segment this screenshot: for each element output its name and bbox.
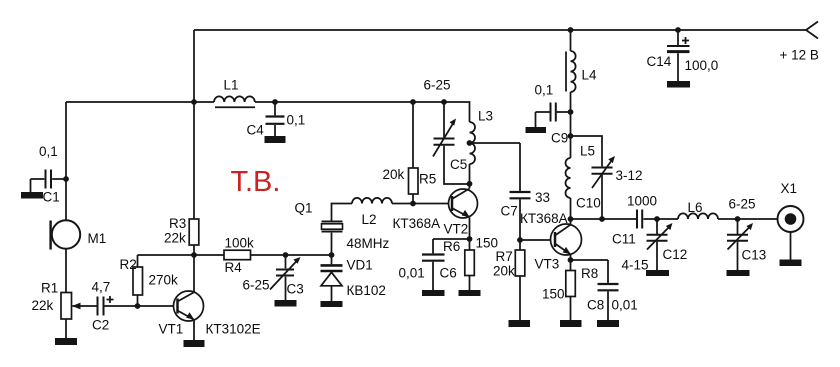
resistor R4 (224, 250, 332, 260)
svg-text:100,0: 100,0 (685, 58, 719, 73)
svg-text:VT3: VT3 (535, 257, 560, 272)
svg-text:КВ102: КВ102 (347, 283, 386, 298)
svg-text:C1: C1 (43, 190, 60, 205)
ground C4 (265, 136, 286, 143)
capacitor C11 (637, 210, 678, 229)
varicap VD1 KB102 (321, 255, 343, 301)
node L4 top (568, 27, 574, 33)
inductor L2 (352, 198, 392, 204)
svg-text:R1: R1 (41, 281, 58, 296)
svg-text:4-15: 4-15 (622, 258, 649, 273)
ground VD1 (321, 301, 343, 307)
ground C13 (727, 270, 750, 276)
svg-text:22k: 22k (164, 231, 186, 246)
node Q1/VD1 (329, 252, 335, 258)
transistor VT2 (449, 184, 478, 240)
node L6/C13 (735, 216, 741, 222)
node C14 top (675, 27, 681, 33)
svg-text:C2: C2 (92, 318, 109, 333)
capacitor C13 variable (727, 219, 753, 270)
ground X1 (780, 260, 802, 267)
svg-text:VT1: VT1 (159, 322, 184, 337)
resistor R1 potentiometer (61, 293, 97, 320)
node VT1 base (135, 303, 141, 309)
node C10 branch (568, 133, 574, 139)
capacitor C8 (571, 260, 619, 320)
capacitor C5 variable (433, 102, 470, 184)
svg-text:КТ368А: КТ368А (520, 211, 568, 226)
node R3 bottom (191, 252, 197, 258)
svg-text:4,7: 4,7 (92, 280, 111, 295)
svg-text:L3: L3 (478, 109, 493, 124)
resistor R3 (189, 219, 199, 255)
wire L6 to X1 (718, 218, 778, 220)
svg-text:20k: 20k (383, 167, 405, 182)
resistor R5 (409, 102, 419, 204)
inductor L5 (566, 158, 571, 225)
svg-text:6-25: 6-25 (243, 278, 270, 293)
svg-text:C14: C14 (647, 54, 672, 69)
svg-text:L4: L4 (582, 68, 598, 83)
ground R6 (459, 290, 481, 296)
transistor VT1 (174, 255, 204, 340)
svg-text:C12: C12 (663, 247, 688, 262)
ground C1 (21, 192, 43, 199)
wire mid rail right (L1 to L3 corner) (255, 102, 470, 122)
svg-text:0,01: 0,01 (399, 266, 425, 281)
svg-text:C7: C7 (501, 204, 518, 219)
node C5 top (441, 99, 447, 105)
node L3 tap (467, 140, 473, 146)
svg-text:+ 12 В: + 12 В (780, 48, 819, 63)
capacitor C7 (510, 143, 531, 250)
svg-text:R3: R3 (169, 216, 186, 231)
svg-text:C4: C4 (247, 123, 265, 138)
node C9 (568, 109, 574, 115)
svg-text:33: 33 (535, 190, 550, 205)
node VT3 emitter (568, 257, 574, 263)
ground R1 (55, 338, 77, 345)
svg-text:C5: C5 (450, 157, 467, 172)
ground VT1 (184, 340, 205, 347)
svg-text:100k: 100k (225, 236, 255, 251)
svg-text:КТ3102Е: КТ3102Е (206, 322, 261, 337)
+12V supply arrow (806, 22, 818, 39)
svg-text:C10: C10 (576, 196, 601, 211)
svg-text:6-25: 6-25 (729, 197, 756, 212)
wire VT3 base (520, 239, 555, 241)
node rail crossing (191, 99, 197, 105)
node VT2 collector (467, 181, 473, 187)
svg-text:L1: L1 (224, 78, 239, 93)
svg-text:1000: 1000 (627, 194, 657, 209)
inductor L4 with core (566, 30, 576, 158)
wire left supply vertical (rail to R3) (193, 30, 195, 219)
inductor L3 with tap (470, 122, 521, 184)
svg-text:M1: M1 (88, 231, 107, 246)
wire mic column top (65, 102, 67, 221)
wire VT2 emitter row (433, 238, 470, 240)
ground C3 (275, 300, 297, 307)
svg-text:R7: R7 (496, 249, 513, 264)
svg-text:C6: C6 (440, 266, 457, 281)
wire mic to R1 (65, 249, 67, 293)
microphone M1 (51, 220, 81, 249)
svg-text:L2: L2 (362, 212, 377, 227)
svg-text:0,01: 0,01 (612, 298, 638, 313)
inductor L1 (214, 96, 255, 107)
wire output row (571, 218, 637, 220)
svg-text:150: 150 (542, 287, 565, 302)
capacitor C2 (98, 296, 178, 316)
svg-text:L5: L5 (580, 144, 595, 159)
svg-text:VD1: VD1 (347, 258, 373, 273)
ground C8 (597, 320, 619, 327)
ground R7 (509, 320, 531, 327)
wire L2 to VT2 base (392, 203, 452, 205)
svg-text:3-12: 3-12 (616, 168, 643, 183)
node VT3 base (517, 237, 523, 243)
capacitor C6 (422, 239, 445, 290)
ground C12 (646, 270, 669, 276)
svg-text:0,1: 0,1 (39, 144, 58, 159)
svg-text:C11: C11 (612, 232, 636, 247)
svg-text:R4: R4 (225, 260, 243, 275)
capacitor C9 (536, 103, 571, 128)
svg-text:X1: X1 (781, 181, 798, 196)
capacitor C12 variable (647, 219, 673, 270)
resistor R6 (465, 239, 475, 290)
node C1/mic (63, 176, 69, 182)
capacitor C10 variable 3-12 (571, 136, 616, 219)
ground C6 (422, 290, 445, 296)
svg-text:270k: 270k (149, 273, 179, 288)
capacitor C14 electrolytic (667, 30, 690, 81)
ground R8 (560, 320, 582, 327)
wire base row R2/R4 (138, 254, 225, 256)
svg-text:R8: R8 (581, 266, 598, 281)
node C10 bottom (599, 216, 605, 222)
transistor VT3 (551, 224, 582, 260)
connector X1 (778, 206, 804, 260)
node L2/R5 (410, 201, 416, 207)
svg-text:R2: R2 (120, 257, 137, 272)
svg-text:R5: R5 (419, 172, 436, 187)
svg-text:R6: R6 (443, 239, 460, 254)
node VT3 collector (568, 216, 574, 222)
capacitor C1 (31, 170, 67, 193)
svg-text:C8: C8 (587, 298, 604, 313)
node C4 top (272, 99, 278, 105)
ground C9 (526, 127, 547, 133)
capacitor C4 (266, 102, 285, 136)
resistor R8 (566, 260, 576, 320)
svg-text:Q1: Q1 (295, 201, 313, 216)
node VT2 emitter (467, 236, 473, 242)
svg-text:КТ368А: КТ368А (393, 216, 441, 231)
svg-text:6-25: 6-25 (424, 78, 451, 93)
svg-text:L6: L6 (688, 200, 703, 215)
resistor R2 (133, 255, 143, 306)
svg-text:0,1: 0,1 (535, 83, 554, 98)
crystal Q1 (322, 204, 353, 256)
wire +12V top rail (194, 29, 806, 31)
node R5 top (410, 99, 416, 105)
svg-text:C13: C13 (742, 248, 767, 263)
svg-text:48MHz: 48MHz (347, 236, 390, 251)
svg-text:22k: 22k (32, 298, 54, 313)
svg-text:Т.В.: Т.В. (231, 166, 281, 198)
node C11/C12 (654, 216, 660, 222)
resistor R7 (515, 250, 525, 320)
svg-text:C9: C9 (551, 131, 568, 146)
svg-text:20k: 20k (493, 264, 515, 279)
svg-text:VT2: VT2 (444, 222, 469, 237)
svg-text:C3: C3 (287, 282, 304, 297)
svg-text:0,1: 0,1 (287, 113, 306, 128)
capacitor C3 variable (270, 255, 301, 300)
inductor L6 (678, 213, 718, 219)
wire R1 to ground (65, 319, 67, 338)
ground C14 (667, 81, 690, 88)
wire mid rail left (to L1) (66, 101, 214, 103)
node C3 top (283, 252, 289, 258)
